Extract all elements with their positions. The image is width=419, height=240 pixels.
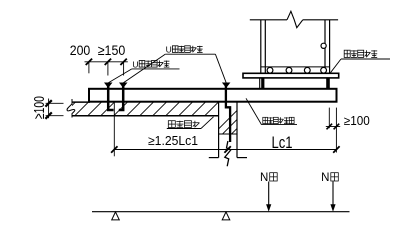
label main bar splice text: [168, 121, 199, 128]
U-bar left leg: [108, 85, 113, 110]
right anchor bolt shaft: [326, 78, 330, 89]
dim text 200: [70, 42, 91, 58]
column right flange: [325, 20, 330, 74]
dim text r100: [344, 114, 370, 128]
label U-bar anchorage underline: [132, 68, 180, 70]
dim extension lines: [89, 62, 124, 76]
svg-text:≥100: ≥100: [31, 96, 48, 119]
label U-bar hoop underline: [165, 53, 215, 55]
load N-inner arrow: [266, 182, 271, 212]
svg-text:≥100: ≥100: [344, 114, 370, 128]
dim ticks: [86, 59, 127, 65]
dim r100 line: [326, 126, 340, 128]
label column positioning bolt underline: [341, 58, 390, 60]
pin support right: [222, 212, 230, 220]
label column positioning bolt text: [344, 50, 377, 57]
anchor bolt heads: [267, 67, 326, 73]
load N-inner text: [260, 172, 277, 184]
dim r100 ticks: [327, 124, 340, 130]
dim 100 line vertical: [48, 99, 50, 119]
dim Lc line: [114, 149, 336, 151]
dim text >=150: [98, 42, 126, 58]
svg-text:N: N: [321, 172, 329, 184]
bolt seat line: [261, 66, 330, 68]
dim r100 extensions: [329, 108, 336, 153]
svg-text:U: U: [132, 59, 138, 69]
schematic beam line: [92, 211, 350, 213]
wall cut marks: [209, 157, 247, 159]
load N-outer arrow: [330, 182, 335, 212]
slab break mark: [67, 99, 75, 118]
label U-bar hoop text: [166, 45, 203, 55]
svg-text:200: 200: [70, 42, 91, 58]
column left flange: [261, 20, 266, 74]
wall break zigzag: [225, 141, 231, 166]
leader to left U-bar: [104, 69, 132, 88]
svg-text:N: N: [260, 172, 268, 184]
dim Lc ticks: [111, 146, 340, 152]
label U-bar anchorage text: [132, 59, 169, 69]
left anchor bolt shaft: [260, 78, 265, 89]
wall left edge: [218, 102, 220, 158]
wall right edge: [236, 102, 238, 158]
pin support left: [112, 212, 120, 220]
steel column section cut line: [250, 19, 338, 21]
U-bar right leg: [119, 85, 123, 110]
dim text 100 rotated: [31, 96, 48, 119]
existing slab bottom edge: [72, 115, 219, 117]
leader to right U-bar: [119, 54, 165, 88]
column break symbol: [287, 11, 303, 27]
label slab rebar leader: [246, 98, 297, 124]
flange hole: [321, 43, 326, 48]
dim text Lc1: [272, 133, 293, 152]
leader to base plate: [330, 59, 341, 73]
dim 100 ticks: [45, 100, 51, 119]
wall hatch bottom line: [219, 133, 237, 135]
existing slab top edge: [72, 101, 90, 103]
wall anchor bar: [226, 86, 230, 142]
dim 100 extensions: [46, 103, 64, 115]
dim text 1.25Lc1: [148, 133, 198, 148]
svg-text:≥1.25Lc1: ≥1.25Lc1: [148, 133, 198, 148]
svg-text:≥150: ≥150: [98, 42, 126, 58]
wall hatching: [212, 102, 273, 136]
leader to wall anchor bar: [215, 54, 230, 88]
label slab rebar text: [263, 117, 294, 123]
svg-text:Lc1: Lc1: [272, 133, 293, 152]
new concrete beam (band): [89, 89, 337, 102]
column base plate: [243, 73, 339, 78]
dim 200/150 line: [85, 61, 128, 63]
dim Lc left extension: [113, 103, 115, 157]
svg-text:U: U: [166, 45, 172, 55]
load N-outer text: [321, 172, 338, 184]
label main bar splice underline+leader: [167, 117, 214, 129]
slab hatching: [60, 101, 246, 118]
